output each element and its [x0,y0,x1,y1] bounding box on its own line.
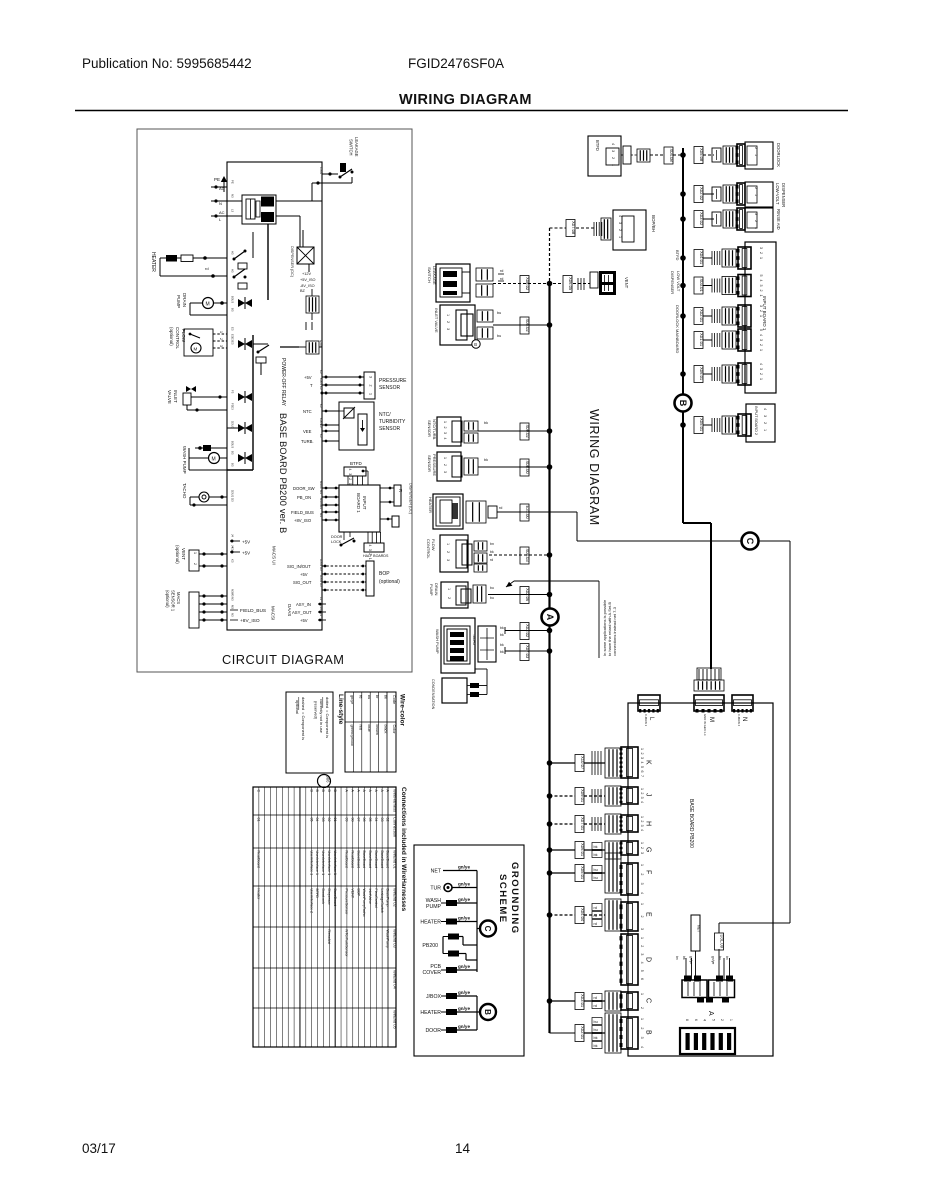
svg-text:INLET VALVE: INLET VALVE [434,308,439,333]
svg-text:X08.00: X08.00 [525,461,530,475]
svg-text:DOOR: DOOR [331,535,343,539]
left bus B row corner [550,1032,576,1034]
connector row X03.02 [694,211,703,228]
svg-text:G: G [645,847,652,852]
svg-text:bk: bk [500,650,504,654]
svg-text:-8V_ISO: -8V_ISO [300,284,315,288]
svg-text:WirEnd 01: WirEnd 01 [393,850,398,869]
terminal block [682,980,707,998]
svg-text:J: J [645,793,652,797]
svg-text:1: 1 [640,788,644,790]
svg-text:+5V: +5V [300,618,308,623]
svg-text:gn/ye: gn/ye [711,956,715,964]
svg-text:LOW-VOLT: LOW-VOLT [775,183,780,205]
svg-text:D3U3: D3U3 [231,421,235,429]
svg-text:PB_ON: PB_ON [297,495,311,500]
svg-text:DISPENSER (DC): DISPENSER (DC) [290,246,294,278]
svg-text:X08.02: X08.02 [525,277,530,291]
note callout arrow [506,581,514,587]
svg-text:R: R [398,489,403,492]
svg-text:RearBoard: RearBoard [350,851,354,868]
svg-text:3: 3 [618,222,622,224]
circled b [472,340,480,348]
svg-text:N3: N3 [231,194,235,198]
svg-text:LOCK: LOCK [331,540,342,544]
svg-text:C: C [483,926,492,932]
svg-text:4: 4 [759,334,763,336]
svg-text:WireHarness: WireHarness [393,789,398,812]
svg-text:connections instead net 7-3: connections instead net 7-3 [612,606,617,656]
harness branch G [550,849,576,851]
svg-text:B3: B3 [231,308,235,312]
svg-text:bu: bu [367,695,371,699]
base board PB200 rectangle (wiring) [628,703,773,1056]
connector block above M [694,680,724,691]
wire color table [345,692,396,772]
svg-text:2: 2 [754,220,758,222]
svg-text:LOW VOLT: LOW VOLT [676,271,681,292]
svg-text:M: M [194,347,198,352]
svg-text:H3U4: H3U4 [319,575,323,583]
svg-text:dotted: dotted [325,697,330,708]
svg-text:= Component is: = Component is [301,712,306,740]
svg-text:2: 2 [618,229,622,231]
svg-text:WashPumpTacho: WashPumpTacho [362,889,366,917]
svg-text:B3U3: B3U3 [231,441,235,448]
svg-text:2: 2 [369,385,373,387]
svg-text:DoorLock: DoorLock [321,889,325,905]
svg-text:2: 2 [720,1019,724,1021]
svg-text:14: 14 [455,1141,471,1156]
svg-text:+5V_ISO: +5V_ISO [300,278,316,282]
svg-text:SCHEME: SCHEME [497,874,508,924]
svg-text:05: 05 [368,818,372,822]
svg-text:Wire-color: Wire-color [399,694,406,727]
svg-text:1: 1 [446,314,450,316]
svg-text:BTFD: BTFD [315,889,319,899]
svg-text:K3: K3 [231,559,235,563]
input board 1 (circuit) [339,485,380,532]
svg-text:2: 2 [640,1027,644,1029]
harness branch K [550,762,576,764]
svg-text:bu: bu [497,334,501,338]
svg-text:BOP: BOP [356,889,360,897]
svg-text:02: 02 [386,818,390,822]
line style legend box [286,692,333,773]
svg-text:+5V: +5V [300,572,308,577]
svg-text:H3: H3 [319,583,323,587]
svg-text:B: B [321,790,325,793]
svg-text:N: N [219,201,222,206]
svg-text:A: A [707,1011,714,1016]
svg-text:X09.02: X09.02 [525,425,530,439]
svg-text:2: 2 [219,338,223,340]
input board 1 box [745,242,776,393]
svg-text:7: 7 [640,775,644,777]
svg-text:X06.05: X06.05 [568,277,573,291]
VENT connector [590,272,598,288]
svg-text:A: A [345,790,349,793]
svg-text:2: 2 [640,847,644,849]
svg-text:X-MAIN 1: X-MAIN 1 [644,714,648,727]
svg-text:CONTROL: CONTROL [426,539,431,559]
svg-text:4: 4 [611,143,615,145]
wash pump side connector [478,626,496,662]
svg-text:DRAIN: DRAIN [182,293,187,307]
isolated connector block [306,341,319,354]
svg-text:06: 06 [362,818,366,822]
svg-text:1: 1 [368,558,372,560]
svg-text:bk: bk [484,458,488,462]
svg-text:6: 6 [640,771,644,773]
svg-text:WIRING DIAGRAM: WIRING DIAGRAM [587,409,601,526]
board connector G [621,841,638,855]
connector row X05.08 [694,147,703,164]
svg-text:K3: K3 [319,404,323,408]
svg-text:1: 1 [759,378,763,380]
power supply transformer block [242,195,276,224]
board connector C [621,992,638,1010]
label X08.00 [520,459,529,476]
svg-text:rd: rd [594,996,597,1000]
svg-text:4: 4 [640,762,644,764]
svg-text:bk: bk [490,550,494,554]
svg-text:K3: K3 [319,386,323,390]
svg-text:1: 1 [754,194,758,196]
left bus dashed top segment [549,228,551,284]
svg-text:E3: E3 [231,327,235,331]
svg-text:blue: blue [367,725,371,732]
svg-text:DOORLOCK: DOORLOCK [675,305,680,328]
svg-text:bu: bu [497,311,501,315]
svg-text:4: 4 [759,363,763,365]
svg-text:(optional): (optional) [165,590,170,608]
svg-text:WIRING DIAGRAM: WIRING DIAGRAM [399,92,532,108]
svg-text:BZ: BZ [300,289,306,293]
svg-text:BaseBoard: BaseBoard [386,851,390,869]
svg-text:B: B [678,400,688,407]
wire harness connection table [253,787,396,1047]
svg-text:M3: M3 [319,505,323,509]
svg-text:N3: N3 [231,597,235,601]
svg-text:GROUNDING: GROUNDING [509,862,520,935]
wires top of board to transformer [227,200,242,202]
svg-text:DISPENSER (DC): DISPENSER (DC) [409,483,413,515]
svg-text:PUMP: PUMP [429,584,434,596]
svg-text:BaseBoard: BaseBoard [380,851,384,869]
svg-text:bn: bn [490,542,494,546]
svg-text:09: 09 [345,818,349,822]
harness branch C [550,1000,576,1002]
svg-text:Color: Color [392,725,396,735]
svg-text:B3: B3 [231,451,235,455]
BOP-BH chain [566,220,575,237]
svg-text:1: 1 [763,429,767,431]
svg-text:FlowControl: FlowControl [374,889,378,908]
svg-text:006: 006 [326,776,331,784]
svg-text:PB200: PB200 [422,943,438,949]
interior relay wiring verticals [267,224,269,300]
svg-text:rd: rd [499,506,502,510]
svg-text:3: 3 [348,473,352,475]
svg-text:1: 1 [640,1018,644,1020]
svg-text:2: 2 [443,464,447,466]
svg-text:B: B [315,790,319,793]
svg-text:WashPump: WashPump [386,930,390,948]
svg-text:1: 1 [443,421,447,423]
svg-text:A: A [368,790,372,793]
svg-text:+12V: +12V [302,272,311,276]
svg-text:D3U1: D3U1 [231,490,235,498]
svg-text:1: 1 [369,393,373,395]
svg-text:4: 4 [443,438,447,440]
svg-text:MACS: MACS [176,592,181,604]
svg-text:(optional): (optional) [169,327,174,346]
svg-text:MACSI: MACSI [271,606,276,620]
relay contacts K2 [234,269,245,277]
svg-text:3: 3 [640,883,644,885]
svg-text:UserInterface 1: UserInterface 1 [309,851,313,876]
label X08.02 [520,276,529,293]
node A circle [542,609,559,626]
svg-text:+5V: +5V [304,375,312,380]
svg-text:BTFD: BTFD [350,461,362,466]
svg-text:BaseBoard: BaseBoard [356,851,360,869]
svg-text:LEAKAGE: LEAKAGE [354,137,359,157]
svg-text:TURBIDITY: TURBIDITY [379,419,406,425]
node B circle [675,395,692,412]
svg-text:2: 2 [759,344,763,346]
svg-text:M3: M3 [319,490,323,494]
svg-text:INPUT: INPUT [362,496,367,510]
appliance box [745,142,773,169]
svg-text:N3: N3 [231,613,235,617]
svg-text:INPUT BOARD 1: INPUT BOARD 1 [762,296,767,331]
svg-text:VENT: VENT [624,277,629,289]
svg-text:Connection: Connection [393,817,398,837]
svg-text:B: B [474,342,477,347]
svg-text:BOP/BH: BOP/BH [651,215,656,232]
top connector N [732,695,753,711]
harness branch H [550,823,576,825]
svg-text:L3: L3 [319,597,323,601]
svg-text:TACHO: TACHO [472,634,476,645]
svg-text:X02.06: X02.06 [525,588,530,602]
svg-text:PUMP: PUMP [176,295,181,308]
svg-text:B3: B3 [231,463,235,467]
svg-text:2: 2 [759,373,763,375]
svg-text:2: 2 [443,427,447,429]
svg-text:+8V_ISO: +8V_ISO [240,618,260,624]
svg-text:03: 03 [321,818,325,822]
svg-text:01: 01 [257,818,261,822]
svg-text:H3: H3 [319,567,323,571]
svg-text:VALVE: VALVE [167,390,172,404]
svg-text:ASY_IN: ASY_IN [296,602,311,607]
svg-text:NTC/TurbSensor: NTC/TurbSensor [345,930,349,958]
right bus junction dots [680,152,686,158]
svg-text:X07.03: X07.03 [525,645,530,659]
svg-text:2: 2 [754,187,758,189]
svg-text:dashed: dashed [301,697,306,710]
top connector L [638,695,660,711]
svg-text:TUR: TUR [430,886,441,892]
svg-text:= Component is: = Component is [325,710,330,738]
svg-text:SWITCH: SWITCH [427,267,432,283]
harness branch J [550,795,576,797]
label X04.03 [520,547,529,564]
svg-text:4: 4 [640,962,644,964]
svg-text:1: 1 [640,993,644,995]
svg-text:5: 5 [759,275,763,277]
svg-text:B3U3: B3U3 [231,296,235,303]
svg-text:E3: E3 [231,341,235,345]
svg-text:DrainPump: DrainPump [386,889,390,907]
harness branch B [574,1032,576,1034]
svg-text:F: F [645,870,652,874]
svg-text:1: 1 [219,331,223,333]
svg-text:3: 3 [640,953,644,955]
svg-text:2: 2 [640,792,644,794]
svg-text:D: D [645,957,652,962]
svg-text:J4: J4 [231,534,235,537]
svg-text:red: red [358,725,362,731]
svg-text:NTC/: NTC/ [379,412,391,418]
svg-text:H: H [645,821,652,826]
svg-text:bn: bn [725,956,729,960]
svg-text:COVER: COVER [423,970,442,976]
svg-text:MACS UI: MACS UI [272,546,277,565]
svg-text:3: 3 [759,339,763,341]
svg-text:UserInterface 1: UserInterface 1 [333,851,337,876]
svg-text:BaseBoard: BaseBoard [333,889,337,907]
svg-text:B: B [309,790,313,793]
svg-text:gn/ye: gn/ye [458,897,470,902]
svg-text:PE: PE [231,180,235,184]
svg-text:PUMP: PUMP [426,904,442,910]
svg-text:bk: bk [594,845,598,849]
svg-text:1: 1 [759,349,763,351]
svg-text:L3: L3 [319,613,323,617]
svg-text:2: 2 [640,1007,644,1009]
svg-text:SENSOR: SENSOR [379,385,401,391]
svg-text:3: 3 [446,328,450,330]
svg-text:UserInterface 1: UserInterface 1 [315,851,319,876]
svg-text:bu: bu [490,586,494,590]
svg-text:X07.08: X07.08 [571,221,576,235]
door lock chain: BTFD box [588,136,621,176]
svg-text:Code: Code [392,695,396,704]
svg-text:3: 3 [754,213,758,215]
svg-text:A3: A3 [231,269,235,273]
svg-text:+5V: +5V [242,551,250,556]
svg-text:K3U4: K3U4 [319,378,323,385]
svg-text:WirEnd 05: WirEnd 05 [393,1010,398,1029]
svg-text:bk: bk [594,1044,598,1048]
svg-text:A: A [374,790,378,793]
svg-text:rd: rd [205,266,209,271]
svg-text:2: 2 [754,147,758,149]
svg-text:X04.03: X04.03 [525,549,530,563]
svg-text:rd: rd [500,269,503,273]
svg-text:4: 4 [640,801,644,803]
svg-text:1: 1 [443,457,447,459]
svg-text:rd: rd [358,695,362,698]
left bus main [548,284,550,609]
svg-text:SWITCH: SWITCH [349,139,354,156]
input board 2 box [746,404,775,442]
label X02.06 [520,587,529,604]
ground node B [480,1004,496,1020]
svg-text:gn/ye: gn/ye [689,956,693,964]
svg-text:rd: rd [594,914,597,918]
svg-text:G3U4: G3U4 [319,340,323,348]
svg-text:BOARD 1: BOARD 1 [356,493,361,513]
ntc wire [478,430,549,432]
svg-text:FLOW: FLOW [181,329,186,343]
pressure wire [478,466,549,468]
svg-text:H3U4: H3U4 [319,559,323,567]
svg-text:currently not in use: currently not in use [319,699,324,734]
svg-text:RearBoard: RearBoard [257,851,261,868]
svg-text:NTC: NTC [303,409,312,414]
appliance box [745,182,773,207]
svg-text:DISPENSER: DISPENSER [781,183,786,207]
svg-text:N3M3: N3M3 [231,589,235,597]
svg-text:T: T [310,383,313,388]
svg-text:DISPENSER: DISPENSER [670,271,675,294]
svg-text:Heater: Heater [257,889,261,901]
svg-text:gn/ye: gn/ye [458,882,470,887]
svg-text:GND IN GEN 1-4: GND IN GEN 1-4 [703,714,707,736]
svg-text:4: 4 [759,280,763,282]
svg-text:4: 4 [763,408,767,410]
svg-text:SIG_IN/OUT: SIG_IN/OUT [287,564,311,569]
svg-text:B: B [327,790,331,793]
svg-text:brown: brown [375,725,379,735]
svg-text:bk: bk [594,1036,598,1040]
svg-text:03: 03 [380,818,384,822]
svg-text:rd: rd [594,922,597,926]
svg-text:K3: K3 [231,547,235,551]
svg-text:4: 4 [640,829,644,831]
svg-text:3: 3 [640,928,644,930]
VENT chain [563,276,572,293]
svg-text:M3: M3 [319,513,323,517]
svg-text:SIG_OUT: SIG_OUT [293,580,312,585]
label X07.03 [520,644,529,661]
svg-text:PRESSURE: PRESSURE [379,378,407,384]
svg-text:RearBoard: RearBoard [345,851,349,868]
svg-text:HEATER: HEATER [150,252,156,272]
svg-text:HEATER: HEATER [420,1010,441,1016]
svg-text:C: C [257,790,261,793]
svg-text:1: 1 [640,903,644,905]
svg-text:B: B [645,1030,652,1035]
svg-text:SENSOR: SENSOR [427,455,432,472]
svg-text:A3: A3 [231,251,235,255]
svg-text:AC: AC [219,210,225,215]
heater wire to node C path [497,511,577,513]
svg-text:2: 2 [763,422,767,424]
svg-text:3: 3 [640,757,644,759]
board connector H [621,815,638,832]
svg-text:3: 3 [640,1037,644,1039]
svg-text:bu: bu [594,1020,598,1024]
svg-text:X03.02: X03.02 [525,624,530,638]
svg-text:A: A [356,790,360,793]
board connector J [621,787,638,804]
